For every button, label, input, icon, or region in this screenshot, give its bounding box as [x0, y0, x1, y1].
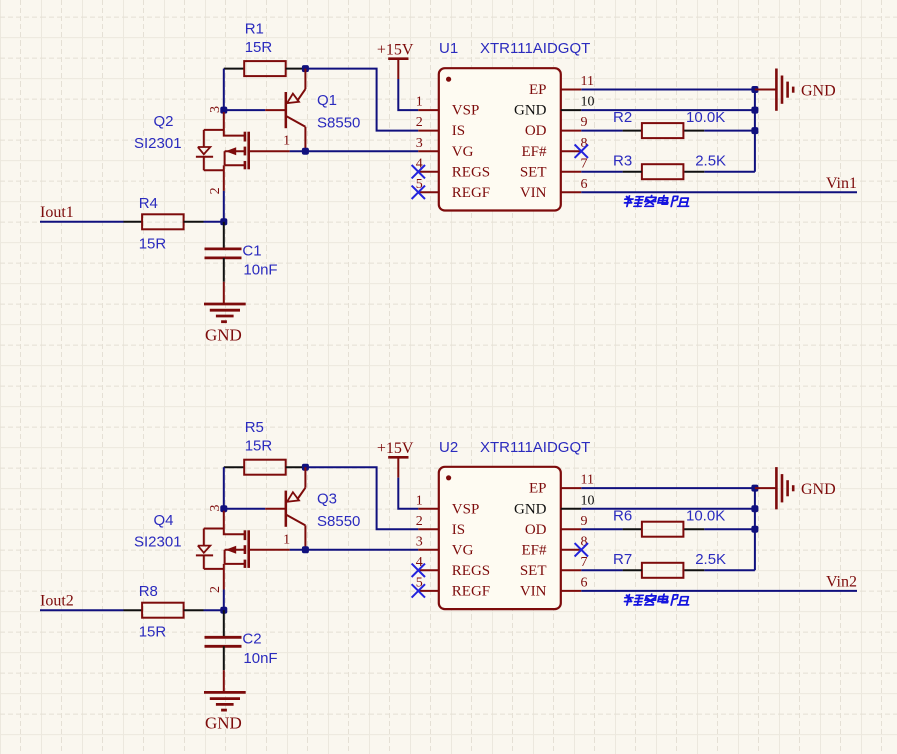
svg-text:R2: R2	[613, 109, 632, 126]
svg-text:2: 2	[416, 514, 423, 529]
svg-text:R6: R6	[613, 508, 632, 525]
wire	[704, 171, 755, 173]
svg-text:VSP: VSP	[452, 501, 480, 517]
svg-text:REGF: REGF	[452, 584, 490, 600]
svg-text:SET: SET	[520, 164, 547, 180]
wire	[581, 89, 755, 91]
svg-text:EP: EP	[529, 481, 547, 497]
svg-text:VIN: VIN	[520, 584, 547, 600]
wire	[704, 569, 755, 571]
svg-text:2: 2	[416, 115, 423, 130]
svg-text:1: 1	[283, 532, 290, 547]
note precision-resistor	[623, 196, 691, 207]
wire	[290, 150, 419, 152]
svg-text:Q4: Q4	[154, 512, 174, 529]
resistor R4	[139, 195, 184, 253]
svg-text:XTR111AIDGQT: XTR111AIDGQT	[480, 439, 590, 456]
ground	[204, 670, 246, 733]
pin 9 OD	[525, 115, 588, 139]
wire	[704, 528, 755, 530]
pin 5 REGF	[416, 576, 490, 600]
op-amp U2	[439, 439, 591, 609]
net label Vin1	[826, 175, 857, 192]
resistor R5	[244, 419, 286, 475]
svg-text:3: 3	[208, 106, 223, 113]
power +15V	[377, 42, 414, 79]
wire	[184, 221, 204, 223]
wire	[623, 528, 642, 530]
svg-text:9: 9	[581, 115, 588, 130]
svg-text:2.5K: 2.5K	[695, 152, 726, 169]
node	[220, 107, 227, 114]
svg-text:+15V: +15V	[377, 440, 414, 457]
svg-text:1: 1	[416, 493, 423, 508]
wire	[286, 68, 306, 70]
capacitor C1	[205, 242, 278, 278]
pin 2 IS	[416, 514, 465, 538]
svg-text:GND: GND	[205, 714, 242, 733]
no-connect pin 4	[412, 165, 425, 178]
resistor R2	[613, 109, 725, 138]
wire	[684, 569, 704, 571]
svg-text:2: 2	[208, 586, 223, 593]
svg-text:GND: GND	[801, 481, 836, 498]
svg-text:VSP: VSP	[452, 103, 480, 119]
wire	[684, 528, 704, 530]
svg-text:U2: U2	[439, 439, 458, 456]
op-amp U1	[439, 40, 591, 210]
svg-text:+15V: +15V	[377, 42, 414, 59]
svg-text:6: 6	[581, 576, 588, 591]
wire	[754, 488, 756, 570]
ground	[204, 282, 246, 345]
svg-text:VG: VG	[452, 542, 474, 558]
node	[751, 485, 758, 492]
wire	[581, 590, 857, 592]
svg-text:VG: VG	[452, 144, 474, 160]
wire	[581, 508, 755, 510]
wire	[286, 466, 306, 468]
no-connect pin 5	[412, 186, 425, 199]
svg-text:U1: U1	[439, 40, 458, 57]
resistor R1	[244, 21, 286, 77]
transistor Q2	[134, 106, 290, 194]
svg-text:3: 3	[416, 534, 423, 549]
svg-text:10nF: 10nF	[243, 262, 277, 279]
net label Vin2	[826, 574, 857, 591]
svg-text:C2: C2	[242, 631, 261, 648]
pin 9 OD	[525, 514, 588, 538]
wire	[398, 478, 418, 509]
svg-text:R5: R5	[245, 419, 264, 436]
svg-text:10: 10	[581, 493, 595, 508]
svg-text:6: 6	[581, 177, 588, 192]
power +15V	[377, 440, 414, 477]
wire	[305, 467, 418, 529]
svg-text:IS: IS	[452, 522, 465, 538]
svg-text:GND: GND	[514, 501, 547, 517]
wire	[684, 130, 704, 132]
wire	[204, 221, 224, 223]
svg-text:Vin1: Vin1	[826, 175, 857, 192]
svg-text:9: 9	[581, 514, 588, 529]
pin 6 VIN	[520, 576, 588, 600]
wire	[581, 130, 622, 132]
wire	[124, 221, 143, 223]
svg-text:Q1: Q1	[317, 92, 337, 109]
node	[751, 86, 758, 93]
resistor R6	[613, 508, 725, 537]
wire	[581, 171, 622, 173]
svg-text:15R: 15R	[139, 624, 167, 641]
resistor R7	[613, 551, 726, 578]
net label Iout1	[40, 204, 74, 221]
svg-text:GND: GND	[514, 103, 547, 119]
svg-text:S8550: S8550	[317, 513, 360, 530]
node	[751, 107, 758, 114]
wire	[684, 171, 704, 173]
svg-text:REGS: REGS	[452, 164, 490, 180]
resistor R3	[613, 152, 726, 179]
pin 4 REGS	[416, 555, 490, 579]
pin 7 SET	[520, 156, 588, 180]
svg-text:GND: GND	[205, 325, 242, 344]
ground	[755, 467, 836, 509]
svg-text:2: 2	[208, 187, 223, 194]
svg-text:C1: C1	[242, 242, 261, 259]
svg-text:R1: R1	[245, 21, 264, 38]
no-connect pin 5	[412, 584, 425, 597]
ground	[755, 69, 836, 111]
node	[302, 464, 309, 471]
svg-text:SET: SET	[520, 563, 547, 579]
transistor Q3	[265, 467, 360, 550]
wire	[223, 610, 225, 637]
svg-text:R7: R7	[613, 551, 632, 568]
wire	[124, 609, 143, 611]
wire	[623, 569, 642, 571]
wire	[224, 508, 265, 510]
wire	[40, 221, 124, 223]
resistor R8	[139, 583, 184, 641]
svg-text:REGF: REGF	[452, 185, 490, 201]
wire	[223, 590, 225, 611]
pin 11 EP	[529, 473, 594, 497]
pin 11 EP	[529, 74, 594, 98]
wire	[223, 646, 225, 670]
wire	[398, 79, 418, 110]
pin 10 GND	[514, 493, 595, 517]
node	[220, 607, 227, 614]
wire	[223, 258, 225, 282]
svg-text:EF#: EF#	[521, 144, 547, 160]
node	[751, 127, 758, 134]
wire	[184, 609, 204, 611]
no-connect pin 8	[575, 145, 588, 158]
wire	[581, 569, 622, 571]
svg-text:REGS: REGS	[452, 563, 490, 579]
node	[220, 505, 227, 512]
svg-text:GND: GND	[801, 82, 836, 99]
svg-text:OD: OD	[525, 123, 547, 139]
svg-text:Q2: Q2	[154, 113, 174, 130]
note precision-resistor	[623, 594, 691, 605]
wire	[224, 109, 265, 111]
wire	[305, 69, 418, 131]
svg-text:EF#: EF#	[521, 542, 547, 558]
svg-text:11: 11	[581, 74, 594, 89]
no-connect pin 8	[575, 543, 588, 556]
wire	[581, 109, 755, 111]
wire	[223, 69, 225, 111]
wire	[223, 222, 225, 249]
node	[751, 526, 758, 533]
node	[751, 505, 758, 512]
pin 5 REGF	[416, 177, 490, 201]
net label Iout2	[40, 592, 74, 609]
svg-text:15R: 15R	[139, 235, 167, 252]
pin 3 VG	[416, 136, 474, 160]
svg-text:7: 7	[581, 156, 588, 171]
svg-text:7: 7	[581, 555, 588, 570]
svg-text:R8: R8	[139, 583, 158, 600]
svg-text:10.0K: 10.0K	[686, 109, 725, 126]
svg-text:EP: EP	[529, 82, 547, 98]
wire	[623, 130, 642, 132]
transistor Q4	[134, 505, 290, 593]
svg-text:VIN: VIN	[520, 185, 547, 201]
svg-text:R4: R4	[139, 195, 158, 212]
wire	[223, 191, 225, 222]
svg-text:1: 1	[416, 95, 423, 110]
svg-text:XTR111AIDGQT: XTR111AIDGQT	[480, 40, 590, 57]
wire	[290, 549, 419, 551]
svg-text:3: 3	[416, 136, 423, 151]
pin 8 EF#	[521, 136, 587, 160]
svg-text:15R: 15R	[245, 438, 273, 455]
pin 4 REGS	[416, 156, 490, 180]
svg-text:Iout1: Iout1	[40, 204, 74, 221]
wire	[704, 130, 755, 132]
svg-text:3: 3	[208, 505, 223, 512]
svg-text:R3: R3	[613, 152, 632, 169]
svg-text:SI2301: SI2301	[134, 135, 182, 152]
no-connect pin 4	[412, 564, 425, 577]
svg-text:10nF: 10nF	[243, 650, 277, 667]
wire	[224, 68, 244, 70]
pin 6 VIN	[520, 177, 588, 201]
wire	[581, 191, 857, 193]
capacitor C2	[205, 631, 278, 667]
pin 7 SET	[520, 555, 588, 579]
svg-text:Iout2: Iout2	[40, 592, 74, 609]
svg-text:2.5K: 2.5K	[695, 551, 726, 568]
wire	[754, 90, 756, 172]
svg-text:1: 1	[283, 134, 290, 149]
node	[302, 546, 309, 553]
svg-text:Q3: Q3	[317, 491, 337, 508]
wire	[581, 528, 622, 530]
wire	[623, 171, 642, 173]
svg-text:S8550: S8550	[317, 115, 360, 132]
svg-text:Vin2: Vin2	[826, 574, 857, 591]
pin 8 EF#	[521, 534, 587, 558]
node	[220, 218, 227, 225]
node	[302, 148, 309, 155]
svg-text:OD: OD	[525, 522, 547, 538]
svg-text:SI2301: SI2301	[134, 534, 182, 551]
svg-text:11: 11	[581, 473, 594, 488]
svg-text:IS: IS	[452, 123, 465, 139]
pin 1 VSP	[416, 493, 480, 517]
wire	[204, 609, 224, 611]
pin 3 VG	[416, 534, 474, 558]
svg-text:15R: 15R	[245, 39, 273, 56]
node	[302, 65, 309, 72]
pin 2 IS	[416, 115, 465, 139]
svg-text:10: 10	[581, 95, 595, 110]
wire	[224, 466, 244, 468]
wire	[223, 467, 225, 509]
wire	[581, 487, 755, 489]
transistor Q1	[265, 69, 360, 152]
wire	[40, 609, 124, 611]
svg-text:10.0K: 10.0K	[686, 508, 725, 525]
pin 1 VSP	[416, 95, 480, 119]
pin 10 GND	[514, 95, 595, 119]
